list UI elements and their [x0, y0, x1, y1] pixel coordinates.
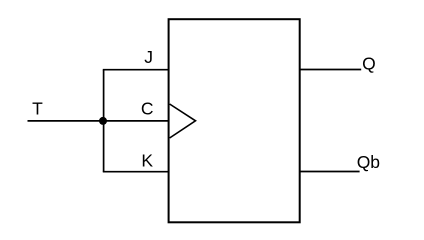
junction dot: [99, 117, 107, 125]
flip-flop U1 body: [169, 19, 300, 222]
svg-text:C: C: [141, 99, 154, 119]
wire J input: [103, 69, 169, 71]
svg-text:Qb: Qb: [357, 152, 380, 172]
wire Qb output: [300, 171, 360, 173]
wire K input: [103, 171, 169, 173]
clock edge-trigger symbol: [170, 104, 196, 138]
wire T input to C pin: [28, 120, 169, 122]
svg-text:Q: Q: [362, 53, 376, 73]
svg-text:K: K: [141, 151, 153, 171]
svg-text:T: T: [32, 98, 43, 118]
wire Q output: [300, 69, 362, 71]
wire vertical branch: [103, 70, 105, 172]
svg-text:J: J: [144, 47, 153, 67]
